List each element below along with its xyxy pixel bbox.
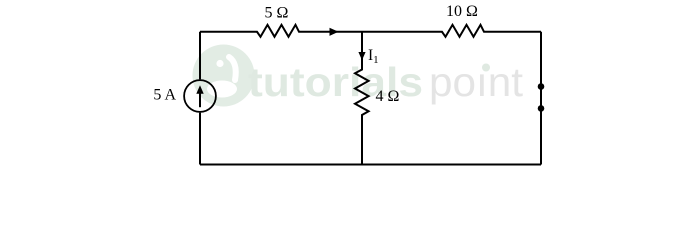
svg-text:5 A: 5 A: [153, 86, 176, 103]
svg-text:I1: I1: [368, 47, 379, 66]
svg-text:10 Ω: 10 Ω: [446, 3, 478, 20]
svg-text:5 Ω: 5 Ω: [265, 4, 289, 21]
svg-text:poınt: poınt: [429, 59, 524, 105]
svg-text:4 Ω: 4 Ω: [376, 88, 400, 105]
